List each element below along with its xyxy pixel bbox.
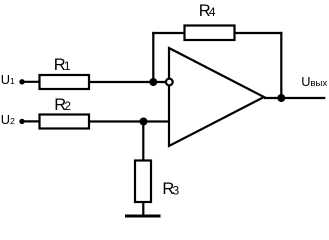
- resistor R3: [135, 161, 151, 203]
- svg-text:R3: R3: [162, 180, 179, 198]
- resistor R4: [185, 26, 235, 41]
- resistor R2: [40, 115, 90, 129]
- resistor R1: [40, 75, 90, 89]
- svg-text:R2: R2: [54, 96, 71, 114]
- svg-text:R4: R4: [199, 2, 216, 20]
- wire feedback top left to R4: [152, 32, 184, 34]
- wire R3 to ground: [142, 202, 144, 216]
- node junction dot R3/non-inverting input: [140, 118, 148, 126]
- node U2 terminal dot: [19, 119, 24, 124]
- wire U1 terminal to R1: [22, 81, 40, 83]
- wire R1 to inverting input: [89, 81, 166, 83]
- wire junction to R3: [142, 122, 144, 162]
- node output junction dot: [277, 94, 285, 102]
- wire R4 to output vertical: [235, 32, 283, 34]
- wire feedback vertical right: [280, 32, 282, 98]
- svg-text:R1: R1: [54, 56, 71, 74]
- ground: [125, 215, 161, 218]
- wire op-amp output: [264, 97, 325, 99]
- wire R2 to non-inverting input: [89, 120, 169, 122]
- node junction dot feedback/inverting input: [149, 78, 157, 86]
- wire feedback vertical left: [152, 32, 154, 82]
- wire U2 terminal to R2: [22, 120, 40, 122]
- op-amp U1 triangle: [169, 48, 264, 146]
- op-amp inverting input bubble: [166, 79, 173, 86]
- node U1 terminal dot: [19, 79, 24, 84]
